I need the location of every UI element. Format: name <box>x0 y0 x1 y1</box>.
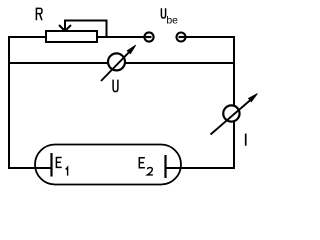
label Ube <box>161 8 165 18</box>
ammeter I needle <box>211 100 252 135</box>
label U <box>113 80 118 92</box>
resistor R1 body <box>46 31 97 42</box>
wire left vertical <box>8 36 10 169</box>
svg-text:be: be <box>166 16 178 27</box>
wire bottom right <box>165 167 235 169</box>
label E2 <box>139 158 145 168</box>
terminal right dash <box>179 36 187 38</box>
voltmeter U needle <box>101 51 130 81</box>
ammeter I body <box>223 105 239 121</box>
wire middle horizontal <box>8 62 234 64</box>
wire top from right terminal to top-right corner <box>186 36 235 38</box>
battery cell E1 plate <box>50 153 52 177</box>
terminal left dash <box>145 36 152 38</box>
resistor R1 wiper bracket <box>65 21 107 38</box>
terminal right circle <box>177 33 186 42</box>
wire right vertical <box>233 36 235 169</box>
battery cell E2 plate <box>164 155 166 178</box>
voltmeter U body <box>108 53 125 70</box>
label R <box>36 8 42 20</box>
resistor R1 wiper arrowhead <box>59 25 71 31</box>
wire bottom left <box>8 167 52 169</box>
wire top from left corner to resistor <box>8 36 46 38</box>
wire top from resistor to left terminal <box>97 36 145 38</box>
ammeter I needle arrowhead <box>249 94 258 102</box>
terminal left circle <box>144 32 153 41</box>
battery stadium outline <box>35 145 181 185</box>
label E1 <box>56 158 61 168</box>
voltmeter U needle arrowhead <box>127 45 136 54</box>
label I <box>245 134 247 146</box>
